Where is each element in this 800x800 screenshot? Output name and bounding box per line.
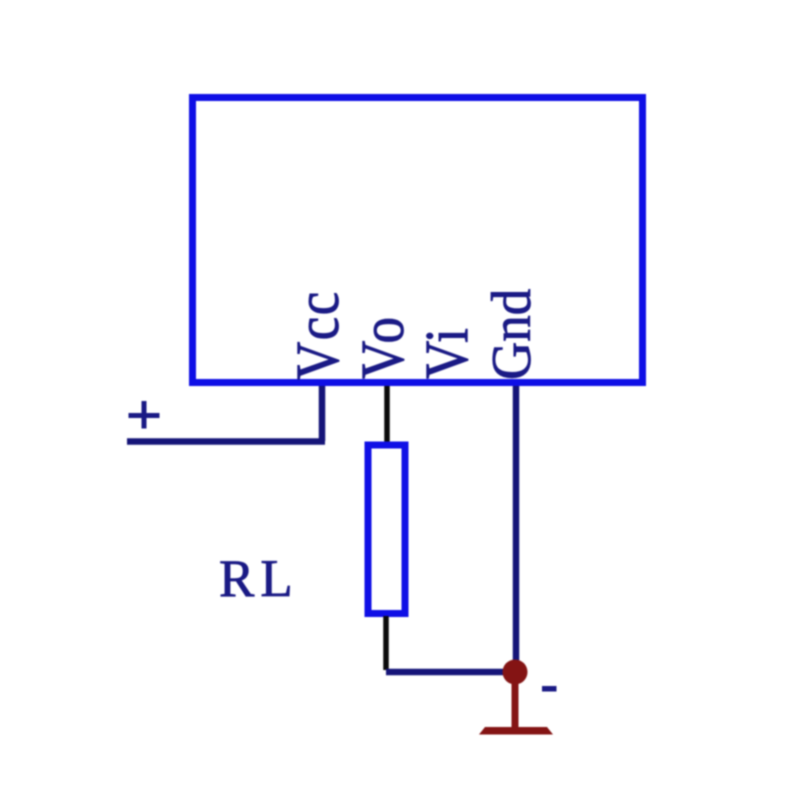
wire supply horizontal (127, 438, 325, 445)
wire Vcc pin vertical (319, 386, 326, 441)
junction node dot (503, 660, 528, 685)
svg-text:Vcc: Vcc (285, 290, 352, 380)
ground bar (479, 727, 553, 735)
ground stem (512, 672, 519, 728)
IC box U1 (193, 98, 643, 383)
svg-text:Vo: Vo (350, 313, 417, 379)
svg-text:RL: RL (219, 550, 299, 608)
svg-text:Vi: Vi (414, 327, 481, 379)
svg-text:Gnd: Gnd (481, 289, 542, 380)
wire resistor bottom (black) (383, 616, 389, 670)
minus terminal - (542, 686, 557, 692)
wire Gnd pin vertical (513, 386, 520, 672)
wire bottom horizontal (386, 669, 515, 676)
wire Vo pin (black) (384, 386, 390, 442)
plus terminal + (129, 401, 160, 429)
resistor RL (368, 445, 405, 614)
